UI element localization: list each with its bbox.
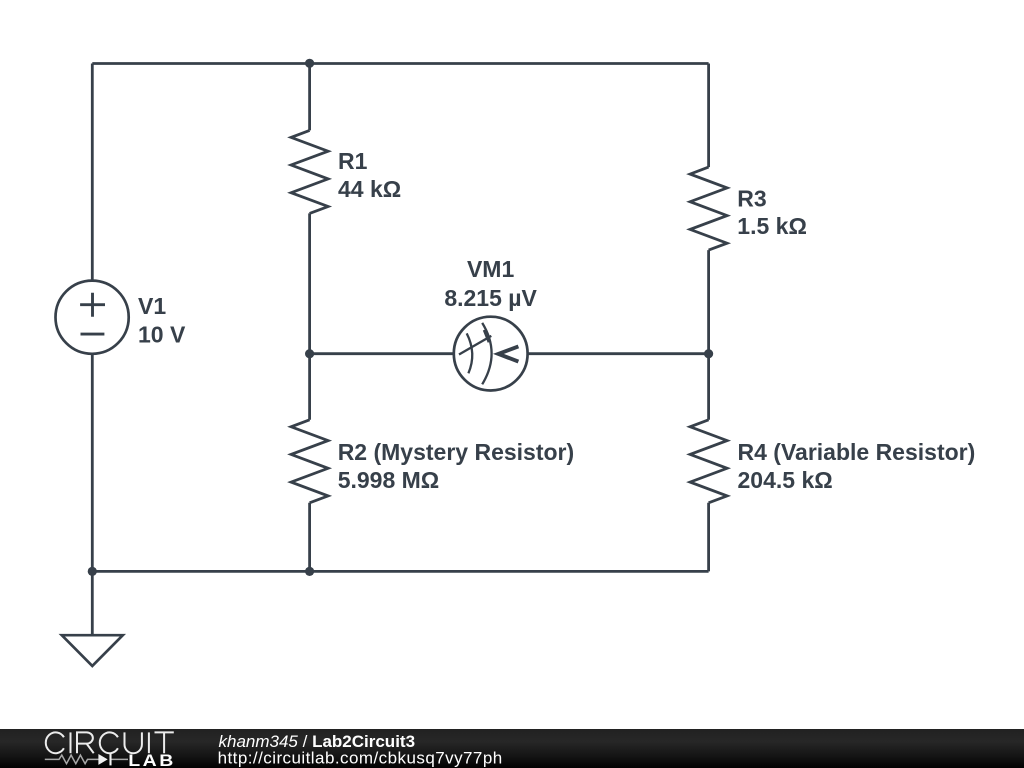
wire middle right (VM1 to node C)	[527, 352, 708, 355]
svg-text:http://circuitlab.com/cbkusq7v: http://circuitlab.com/cbkusq7vy77ph	[218, 749, 503, 768]
wire bottom rail	[92, 570, 708, 573]
svg-text:10 V: 10 V	[138, 321, 186, 347]
svg-text:R2 (Mystery Resistor): R2 (Mystery Resistor)	[338, 439, 574, 465]
node junction bottom (R2/bottom rail)	[305, 567, 314, 576]
footer bar	[0, 729, 1024, 768]
wire R3 top lead	[707, 64, 710, 168]
voltmeter VM1	[454, 317, 528, 391]
ground	[62, 635, 123, 666]
wire ground stem	[91, 571, 94, 635]
logo CIRCUIT wordmark	[46, 732, 174, 753]
node junction bottom-left	[88, 567, 97, 576]
wire middle left (node B to VM1)	[310, 352, 454, 355]
wire R2 top lead	[308, 354, 311, 420]
node junction B (left mid)	[305, 349, 314, 358]
svg-text:VM1: VM1	[467, 256, 515, 282]
resistor R2	[291, 420, 328, 503]
svg-text:5.998 MΩ: 5.998 MΩ	[338, 467, 440, 493]
wire R4 bottom lead	[707, 503, 710, 572]
svg-text:V1: V1	[138, 293, 166, 319]
wire left rail lower	[91, 354, 94, 572]
wire R3 bottom lead	[707, 250, 710, 354]
resistor R4	[690, 420, 727, 503]
svg-text:1.5 kΩ: 1.5 kΩ	[737, 213, 807, 239]
svg-text:8.215 µV: 8.215 µV	[444, 285, 537, 311]
svg-text:R4 (Variable Resistor): R4 (Variable Resistor)	[738, 439, 976, 465]
node junction top (R1/top rail)	[305, 59, 314, 68]
voltage source V1	[56, 281, 129, 354]
svg-text:R1: R1	[338, 148, 368, 174]
svg-text:204.5 kΩ: 204.5 kΩ	[738, 467, 833, 493]
resistor R3	[690, 167, 727, 250]
wire R2 bottom lead	[308, 503, 311, 572]
node junction C (right mid)	[704, 349, 713, 358]
logo resistor-diode art	[45, 755, 128, 764]
wire R1 bottom lead	[308, 213, 311, 353]
svg-text:44 kΩ: 44 kΩ	[338, 176, 401, 202]
svg-text:LAB: LAB	[128, 751, 176, 768]
svg-text:R3: R3	[737, 185, 766, 211]
resistor R1	[291, 130, 328, 213]
wire R4 top lead	[707, 354, 710, 420]
wire left rail upper	[91, 64, 94, 281]
wire top rail	[92, 62, 708, 65]
wire R1 top lead	[308, 64, 311, 131]
